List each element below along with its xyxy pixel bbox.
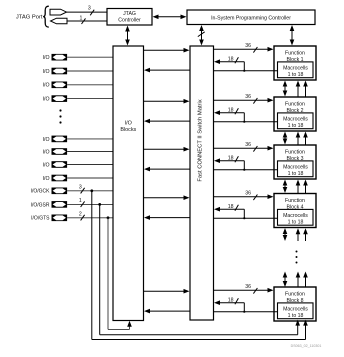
bus 36 matrix to Function Block 2 xyxy=(214,94,274,104)
I/O/GCK pad label xyxy=(31,189,51,195)
wire I/O pad 7 to I/O Blocks xyxy=(67,164,113,166)
wire macrocell cascade below FB4 (bidirectional) xyxy=(283,228,288,241)
svg-text:1 to 18: 1 to 18 xyxy=(288,220,304,226)
svg-text:I/O: I/O xyxy=(43,69,50,75)
wire GCK riser into Function Block 8 xyxy=(303,320,308,340)
wire I/O/GSR to I/O Blocks xyxy=(67,203,113,205)
svg-text:I/O: I/O xyxy=(43,83,50,89)
svg-text:Function: Function xyxy=(285,50,305,56)
junction I/O/GTS xyxy=(107,216,110,219)
I/O/GTS buffer symbol xyxy=(52,215,68,222)
wire macrocell cascade above FB8 (bidirectional) xyxy=(283,272,288,288)
JTAG port brace xyxy=(43,6,49,27)
node JTAG Port label xyxy=(16,14,43,20)
wire JTAG Controller to ISP Controller (bidirectional) xyxy=(153,15,187,20)
wire macrocell cascade FB2-FB3 (bidirectional) xyxy=(283,132,288,145)
svg-text:1 to 18: 1 to 18 xyxy=(288,171,304,177)
wire matrix to I/O Blocks (FB4 row) xyxy=(144,215,190,220)
svg-text:Fast CONNECT II Switch Matrix: Fast CONNECT II Switch Matrix xyxy=(198,99,204,181)
svg-text:Macrocells: Macrocells xyxy=(283,165,308,171)
I/O pad 7 buffer symbol xyxy=(52,161,68,168)
svg-text:Blocks: Blocks xyxy=(120,127,136,133)
svg-text:Function: Function xyxy=(285,101,305,107)
wire global net riser 2 FB3 to FB2 xyxy=(303,132,308,146)
svg-text:1 to 18: 1 to 18 xyxy=(288,72,304,78)
wire global net riser 2 FB2 to FB1 xyxy=(303,81,308,98)
bus 36 matrix to Function Block 8 xyxy=(214,284,274,294)
svg-text:18: 18 xyxy=(228,56,234,62)
junction I/O/GCK xyxy=(90,189,93,192)
bus 18 Function Block 2 feedback to matrix xyxy=(214,107,244,121)
svg-text:18: 18 xyxy=(228,107,234,113)
wire JTAG Controller to I/O Blocks (bidirectional) xyxy=(125,26,130,46)
ellipsis between I/O pads xyxy=(59,109,61,123)
wire I/O pad 4 to I/O Blocks xyxy=(67,98,113,100)
Function Block 1 macrocells xyxy=(278,62,314,78)
I/O pad 7 label xyxy=(43,162,50,168)
wire I/O Blocks to matrix (FB2 row) xyxy=(144,99,190,104)
Function Block 3 xyxy=(274,145,316,179)
wire matrix to I/O Blocks (FB2 row) xyxy=(144,119,190,124)
svg-text:36: 36 xyxy=(245,284,251,290)
wire matrix to I/O Blocks (FB8 row) xyxy=(144,309,190,314)
svg-text:Function: Function xyxy=(285,149,305,155)
wire I/O pad 3 to I/O Blocks xyxy=(67,84,113,86)
svg-text:I/O: I/O xyxy=(43,137,50,143)
In-System Programming Controller U2 xyxy=(187,10,315,25)
svg-text:Macrocells: Macrocells xyxy=(283,66,308,72)
I/O pad 3 label xyxy=(43,83,50,89)
I/O pad 1 label xyxy=(43,55,50,61)
svg-text:1 to 18: 1 to 18 xyxy=(288,123,304,129)
wire global net riser FB4 to FB3 xyxy=(296,180,301,194)
wire JTAG Controller to TDO xyxy=(67,20,107,22)
wire global net riser FB3 to FB2 xyxy=(296,132,301,146)
svg-text:36: 36 xyxy=(245,94,251,100)
wire JTAG inputs to JTAG Controller xyxy=(67,11,108,13)
figure reference number xyxy=(291,344,322,348)
wire I/O pad 8 to I/O Blocks xyxy=(67,177,113,179)
svg-text:I/O: I/O xyxy=(43,55,50,61)
svg-text:3: 3 xyxy=(88,6,91,12)
svg-text:Function: Function xyxy=(285,291,305,297)
Function Block 8 macrocells xyxy=(278,303,314,319)
svg-text:Controller: Controller xyxy=(118,17,141,23)
wire I/O/GTS to I/O Blocks xyxy=(67,217,113,219)
wire global net riser into FB4 xyxy=(296,228,301,241)
svg-text:I/O/GSR: I/O/GSR xyxy=(31,202,50,208)
wire ISP Controller to FastCONNECT matrix (bidirectional bus) xyxy=(198,25,205,46)
wire GTS global net (down and around bottom) xyxy=(108,218,130,330)
svg-text:18: 18 xyxy=(228,204,234,210)
bus 36 matrix to Function Block 4 xyxy=(214,191,274,201)
Function Block 1 xyxy=(274,46,316,80)
bus 18 Function Block 1 feedback to matrix xyxy=(214,56,244,70)
svg-text:I/O: I/O xyxy=(43,162,50,168)
wire global net riser FB2 to FB1 xyxy=(296,81,301,98)
wire matrix to I/O Blocks (FB3 row) xyxy=(144,167,190,172)
wire macrocell cascade FB1-FB2 (bidirectional) xyxy=(283,81,288,97)
svg-text:In-System Programming Controll: In-System Programming Controller xyxy=(211,15,291,21)
wire GTS riser into I/O Blocks xyxy=(127,321,132,330)
wire matrix to Function Block 8 macrocells xyxy=(214,311,278,313)
wire ISP Controller to Function Block 1 (bidirectional) xyxy=(290,25,295,46)
svg-text:18: 18 xyxy=(228,297,234,303)
bus width 3 label xyxy=(88,6,94,16)
bus 36 matrix to Function Block 3 xyxy=(214,142,274,152)
svg-text:I/O: I/O xyxy=(43,149,50,155)
wire I/O Blocks to matrix (FB4 row) xyxy=(144,195,190,200)
bus width 3 label xyxy=(79,184,85,193)
I/O/GSR pad label xyxy=(31,202,50,208)
wire matrix to I/O Blocks (FB1 row) xyxy=(144,68,190,73)
wire I/O/GCK to I/O Blocks xyxy=(67,190,113,192)
svg-text:1: 1 xyxy=(79,198,82,204)
bus 18 Function Block 8 feedback to matrix xyxy=(214,297,244,311)
wire matrix to Function Block 3 macrocells xyxy=(214,169,278,171)
wire I/O pad 5 to I/O Blocks xyxy=(67,138,113,140)
bus width 1 label xyxy=(80,16,86,24)
wire I/O pad 1 to I/O Blocks xyxy=(67,56,113,58)
I/O pad 8 buffer symbol xyxy=(52,175,68,182)
wire I/O pad 2 to I/O Blocks xyxy=(67,70,113,72)
svg-text:JTAG Port: JTAG Port xyxy=(16,14,43,20)
JTAG Controller U1 xyxy=(107,9,152,26)
I/O pad 2 label xyxy=(43,69,50,75)
wire global net riser 2 FB4 to FB3 xyxy=(303,180,308,194)
wire matrix to Function Block 4 macrocells xyxy=(214,217,278,219)
ellipsis between FB4 and FB8 xyxy=(296,251,298,264)
JTAG TDI/TMS/TCK input buffer xyxy=(50,9,67,15)
FastCONNECT II Switch Matrix xyxy=(190,46,214,320)
svg-text:I/O/GTS: I/O/GTS xyxy=(31,216,50,222)
wire global net riser above FB8 xyxy=(296,272,301,288)
I/O pad 4 label xyxy=(43,97,50,103)
svg-text:DS063_02_110301: DS063_02_110301 xyxy=(291,344,322,348)
junction I/O/GSR xyxy=(98,203,101,206)
I/O/GTS pad label xyxy=(31,216,50,222)
wire GSR global net (down and around bottom) xyxy=(100,204,298,334)
I/O pad 1 buffer symbol xyxy=(52,54,68,61)
svg-text:36: 36 xyxy=(245,142,251,148)
svg-text:Macrocells: Macrocells xyxy=(283,117,308,123)
I/O pad 5 buffer symbol xyxy=(52,136,68,143)
Function Block 2 macrocells xyxy=(278,113,314,129)
svg-text:Macrocells: Macrocells xyxy=(283,307,308,313)
svg-text:I/O: I/O xyxy=(43,176,50,182)
svg-text:36: 36 xyxy=(245,43,251,49)
I/O pad 4 buffer symbol xyxy=(52,95,68,102)
I/O pad 8 label xyxy=(43,176,50,182)
Function Block 8 xyxy=(274,287,316,321)
I/O pad 2 buffer symbol xyxy=(52,68,68,75)
bus width 2 label xyxy=(79,211,85,220)
wire matrix to Function Block 1 macrocells xyxy=(214,70,278,72)
JTAG TDO output buffer xyxy=(51,18,68,24)
svg-text:I/O/GCK: I/O/GCK xyxy=(31,189,51,195)
svg-text:3: 3 xyxy=(79,184,82,190)
wire I/O Blocks to matrix (FB3 row) xyxy=(144,147,190,152)
svg-text:JTAG: JTAG xyxy=(123,11,136,17)
wire I/O Blocks to matrix (FB1 row) xyxy=(144,48,190,53)
svg-text:2: 2 xyxy=(79,211,82,217)
wire global net riser 2 above FB8 xyxy=(303,272,308,288)
wire macrocell cascade FB3-FB4 (bidirectional) xyxy=(283,180,288,194)
Function Block 4 xyxy=(274,194,316,228)
svg-text:1 to 18: 1 to 18 xyxy=(288,313,304,319)
wire GCK global net (down and around bottom) xyxy=(92,191,306,340)
I/O pad 3 buffer symbol xyxy=(52,82,68,89)
bus 18 Function Block 4 feedback to matrix xyxy=(214,204,244,218)
I/O/GCK buffer symbol xyxy=(52,188,68,195)
bus width 1 label xyxy=(79,198,85,207)
bus 18 Function Block 3 feedback to matrix xyxy=(214,155,244,169)
wire global net riser 2 into FB4 xyxy=(303,228,308,241)
svg-text:36: 36 xyxy=(245,191,251,197)
I/O pad 5 label xyxy=(43,137,50,143)
wire matrix to Function Block 2 macrocells xyxy=(214,121,278,123)
svg-text:Macrocells: Macrocells xyxy=(283,213,308,219)
I/O pad 6 buffer symbol xyxy=(52,148,68,155)
svg-text:18: 18 xyxy=(228,155,234,161)
I/O pad 6 label xyxy=(43,149,50,155)
wire I/O pad 6 to I/O Blocks xyxy=(67,151,113,153)
wire I/O Blocks to matrix (FB8 row) xyxy=(144,289,190,294)
wire GSR riser into Function Block 8 xyxy=(295,320,300,335)
Function Block 3 macrocells xyxy=(278,161,314,177)
bus 36 matrix to Function Block 1 xyxy=(214,43,274,53)
I/O/GSR buffer symbol xyxy=(52,201,68,208)
svg-text:I/O: I/O xyxy=(43,97,50,103)
Function Block 2 xyxy=(274,97,316,131)
svg-text:Function: Function xyxy=(285,198,305,204)
svg-text:1: 1 xyxy=(80,16,83,22)
svg-text:I/O: I/O xyxy=(125,121,132,127)
Function Block 4 macrocells xyxy=(278,209,314,225)
I/O Blocks xyxy=(113,46,144,321)
